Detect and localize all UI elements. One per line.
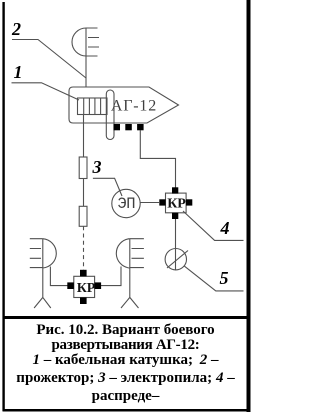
KR1 top tab bbox=[172, 187, 178, 193]
leader label 2 bbox=[12, 40, 86, 79]
caption legend line 4 bbox=[5, 371, 246, 386]
searchlight SL-L rays bbox=[30, 239, 43, 268]
svg-text:КР: КР bbox=[77, 281, 96, 296]
leader label 4 bbox=[183, 211, 244, 240]
frame bottom border bbox=[3, 409, 251, 412]
coupling M1 bbox=[79, 157, 87, 179]
wire reel down bbox=[83, 115, 85, 158]
KR2 box bbox=[74, 276, 95, 297]
caption legend line 5 bbox=[5, 389, 246, 404]
caption title line 2 bbox=[5, 338, 246, 353]
leader label 1 bbox=[12, 83, 80, 100]
frame separator line bbox=[3, 316, 251, 319]
dashed cable to lower KR bbox=[83, 226, 85, 269]
KR1 left tab bbox=[159, 199, 165, 205]
wire KR1 to lamp bbox=[175, 218, 177, 269]
connector square P3 bbox=[137, 124, 144, 130]
connector square P2 bbox=[125, 124, 132, 130]
svg-text:КР: КР bbox=[167, 197, 186, 212]
EP circle bbox=[112, 189, 140, 217]
searchlight SL2 rays bbox=[86, 28, 99, 56]
searchlight SL-R rays bbox=[130, 239, 144, 268]
frame right border bbox=[247, 0, 251, 412]
coupling M2 bbox=[79, 206, 87, 226]
lamp L circle bbox=[165, 249, 186, 270]
callout 4 bbox=[221, 219, 230, 237]
frame left border bbox=[2, 2, 4, 411]
searchlight SL-R legs bbox=[121, 297, 139, 308]
reel bars bbox=[84, 98, 101, 115]
leader label 5 bbox=[184, 266, 244, 291]
searchlight SL-L legs bbox=[34, 297, 51, 308]
callout 2 bbox=[12, 20, 21, 38]
connector square P1 bbox=[114, 124, 121, 130]
KR2 bottom tab bbox=[80, 297, 87, 304]
searchlight SL2 pole bbox=[85, 28, 87, 87]
searchlight SL-L head arc bbox=[43, 239, 56, 268]
wire SL-R to KR2 bbox=[101, 267, 121, 286]
searchlight SL-L pole bbox=[42, 239, 44, 298]
svg-text:АГ-12: АГ-12 bbox=[111, 98, 157, 115]
KR2 right tab bbox=[95, 282, 102, 289]
callout 1 bbox=[14, 63, 23, 81]
wire SL-L to KR2 bbox=[50, 267, 67, 286]
searchlight SL-R pole bbox=[129, 239, 131, 298]
cable reel R bbox=[78, 98, 108, 115]
leader label 3 bbox=[93, 178, 122, 196]
KR2 left tab bbox=[67, 282, 74, 289]
wire square3 to KR1 bbox=[140, 130, 175, 188]
svg-text:ЭП: ЭП bbox=[118, 195, 136, 213]
KR2 top tab bbox=[80, 270, 87, 277]
lamp diagonal bbox=[167, 251, 188, 269]
KR1 right tab bbox=[186, 199, 192, 205]
searchlight SL-R head arc bbox=[116, 239, 129, 268]
caption title line 1 bbox=[5, 323, 246, 338]
AG-12 arrow body bbox=[69, 87, 179, 123]
wire EP to KR1 bbox=[140, 202, 159, 204]
wire between couplings bbox=[83, 179, 85, 207]
KR1 bottom tab bbox=[172, 213, 178, 219]
callout 3 bbox=[93, 158, 102, 176]
searchlight SL2 head arc bbox=[72, 28, 86, 56]
callout 5 bbox=[220, 269, 229, 287]
caption legend line 3 bbox=[5, 353, 246, 368]
cable loop bbox=[106, 90, 114, 140]
KR1 box bbox=[166, 193, 187, 213]
